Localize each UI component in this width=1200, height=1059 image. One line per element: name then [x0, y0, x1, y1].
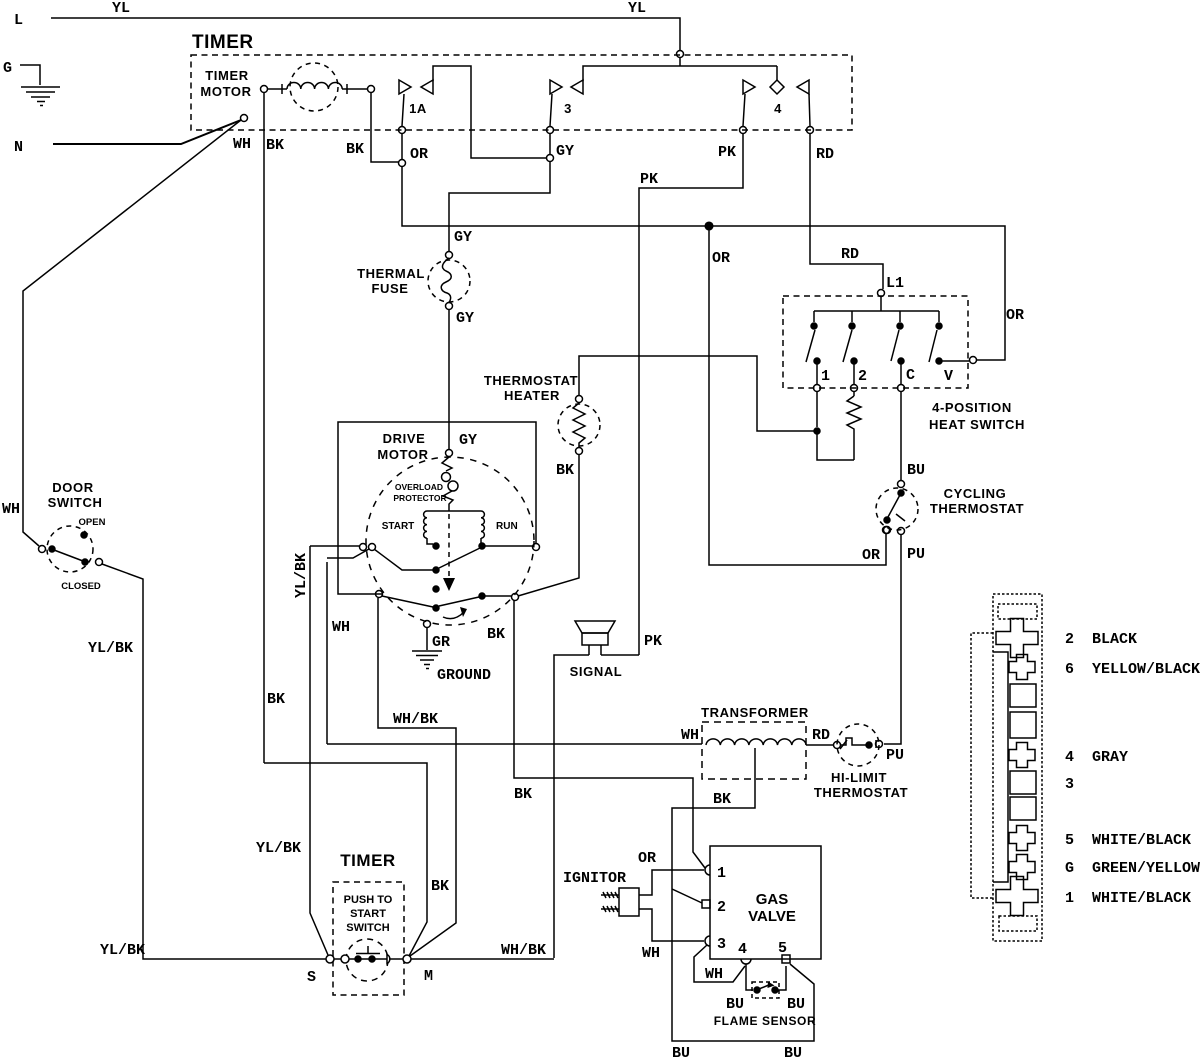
- svg-text:WH: WH: [681, 727, 699, 744]
- terminal square 3: [1010, 771, 1036, 794]
- svg-text:YL/BK: YL/BK: [256, 840, 301, 857]
- svg-text:HI-LIMIT: HI-LIMIT: [831, 770, 887, 785]
- svg-text:BK: BK: [514, 786, 532, 803]
- svg-text:1: 1: [717, 865, 726, 882]
- svg-text:IGNITOR: IGNITOR: [563, 870, 626, 887]
- wire BK timer to push-to-start M: [264, 763, 449, 956]
- svg-text:BLACK: BLACK: [1092, 631, 1137, 648]
- motor winding bottom leads: [427, 538, 532, 549]
- svg-text:CYCLING: CYCLING: [944, 486, 1007, 501]
- svg-text:BK: BK: [431, 878, 449, 895]
- wire RD timer to heat switch L1: [810, 134, 883, 289]
- wire OR ignitor to gas valve 1: [638, 850, 704, 895]
- label DRIVE MOTOR: [377, 431, 428, 462]
- label THERMOSTAT HEATER: [484, 373, 578, 403]
- drive motor circle: [366, 457, 534, 625]
- wire BU heat switch C to cycling thermostat: [898, 364, 926, 480]
- wire WH ignitor to gas valve 3: [639, 909, 704, 962]
- wire YL/BK door switch to push-to-start S: [88, 564, 326, 959]
- node M: [424, 968, 433, 985]
- svg-text:WH: WH: [2, 501, 20, 518]
- label 4-POSITION HEAT SWITCH: [929, 400, 1025, 432]
- wire signal right to PK: [601, 654, 639, 656]
- svg-text:4: 4: [1065, 749, 1074, 766]
- timer cam contact 4: [743, 66, 810, 126]
- ground symbol at G: [20, 65, 60, 106]
- wire WH from timer to door switch: [2, 120, 241, 546]
- signal buzzer: [575, 621, 615, 655]
- junction OR branch: [705, 222, 713, 230]
- motor GY terminal: [446, 450, 453, 457]
- timer terminal OR: [399, 127, 429, 164]
- svg-text:DOOR: DOOR: [52, 480, 93, 495]
- label SIGNAL: [570, 664, 623, 679]
- label OPEN: [79, 517, 106, 528]
- svg-text:WHITE/BLACK: WHITE/BLACK: [1092, 832, 1191, 849]
- timer terminal RD: [807, 127, 835, 164]
- svg-text:4: 4: [774, 101, 782, 116]
- svg-text:WH: WH: [642, 945, 660, 962]
- svg-text:V: V: [944, 368, 953, 385]
- gas valve pin 3: [705, 936, 726, 953]
- junction heat switch 1: [814, 428, 854, 460]
- ignitor: [563, 870, 639, 916]
- hi-limit thermostat S4: [834, 724, 905, 766]
- terminal cross 6: [1009, 655, 1035, 680]
- motor ground terminal GR: [424, 621, 451, 652]
- svg-text:1: 1: [821, 368, 830, 385]
- svg-text:FLAME SENSOR: FLAME SENSOR: [714, 1014, 817, 1028]
- svg-text:TIMER: TIMER: [192, 32, 254, 53]
- svg-text:G: G: [1065, 860, 1074, 877]
- push-to-start switch contacts: [326, 939, 411, 981]
- terminal square a: [1010, 684, 1036, 707]
- drive motor box: [338, 422, 540, 598]
- wire transformer to hi-limit RD: [806, 727, 833, 745]
- door switch S3: [39, 526, 103, 572]
- svg-text:WH: WH: [233, 136, 251, 153]
- motor run winding: [481, 511, 518, 538]
- svg-text:OR: OR: [638, 850, 656, 867]
- svg-text:HEATER: HEATER: [504, 388, 560, 403]
- svg-text:THERMOSTAT: THERMOSTAT: [484, 373, 578, 388]
- heat switch terminal 1 bottom: [814, 364, 821, 427]
- label CYCLING THERMOSTAT: [930, 486, 1024, 516]
- legend 1 WHITE/BLACK: [1065, 890, 1191, 907]
- svg-text:SWITCH: SWITCH: [346, 922, 389, 934]
- label GAS VALVE: [748, 891, 796, 925]
- svg-text:YL: YL: [112, 0, 130, 17]
- svg-text:BK: BK: [346, 141, 364, 158]
- svg-text:BU: BU: [907, 462, 925, 479]
- heat switch arm V: [929, 330, 953, 385]
- push-to-start switch dashed box: [333, 882, 404, 995]
- wire WH/BK push-to-start M to signal: [411, 942, 554, 959]
- svg-text:RD: RD: [812, 727, 830, 744]
- svg-text:N: N: [14, 139, 23, 156]
- heat switch contacts: [811, 323, 942, 364]
- wire WH to transformer: [327, 727, 702, 744]
- timer terminal PK: [718, 127, 747, 162]
- motor start winding: [382, 511, 481, 538]
- svg-text:BU: BU: [672, 1045, 690, 1059]
- svg-text:WH/BK: WH/BK: [393, 711, 438, 728]
- svg-text:MOTOR: MOTOR: [200, 84, 251, 99]
- svg-text:BK: BK: [487, 626, 505, 643]
- heat switch arm 2: [843, 330, 867, 385]
- terminal block: [971, 594, 1042, 941]
- legend 4 GRAY: [1065, 749, 1128, 766]
- svg-text:BU: BU: [787, 996, 805, 1013]
- svg-text:FUSE: FUSE: [371, 281, 408, 296]
- legend 5 WHITE/BLACK: [1065, 832, 1191, 849]
- motor rotation arrow: [443, 607, 467, 619]
- svg-text:GY: GY: [556, 143, 574, 160]
- wire BK transformer tap to flame sensor loop: [672, 748, 814, 1059]
- svg-text:BK: BK: [267, 691, 285, 708]
- svg-text:CLOSED: CLOSED: [61, 581, 101, 592]
- overload protector: [442, 457, 459, 511]
- svg-text:GREEN/YELLOW: GREEN/YELLOW: [1092, 860, 1200, 877]
- node G: [3, 60, 12, 77]
- svg-text:OR: OR: [1006, 307, 1024, 324]
- svg-text:2: 2: [1065, 631, 1074, 648]
- svg-text:YL/BK: YL/BK: [88, 640, 133, 657]
- svg-text:PUSH TO: PUSH TO: [344, 894, 393, 906]
- svg-text:3: 3: [717, 936, 726, 953]
- svg-text:PK: PK: [644, 633, 662, 650]
- svg-text:MOTOR: MOTOR: [377, 447, 428, 462]
- terminal cross G: [1009, 855, 1035, 880]
- svg-text:S: S: [307, 969, 316, 986]
- svg-text:GRAY: GRAY: [1092, 749, 1128, 766]
- svg-text:BK: BK: [266, 137, 284, 154]
- svg-text:4-POSITION: 4-POSITION: [932, 400, 1012, 415]
- terminal square b: [1010, 712, 1036, 738]
- svg-text:GY: GY: [454, 229, 472, 246]
- wire BK motor to gas valve 1: [487, 600, 705, 868]
- label TIMER (push to start): [340, 851, 395, 870]
- wire BK thermostat heater to drive motor: [518, 455, 579, 596]
- wire BK timer motor right to OR node: [346, 93, 406, 167]
- wire WH to motor: [327, 549, 369, 744]
- node S: [307, 969, 316, 986]
- svg-text:L: L: [14, 12, 23, 29]
- timer cam contact 3: [550, 66, 777, 126]
- svg-text:OR: OR: [410, 146, 428, 163]
- gas valve box: [710, 846, 821, 959]
- svg-text:THERMOSTAT: THERMOSTAT: [930, 501, 1024, 516]
- label PUSH TO START SWITCH: [344, 894, 393, 934]
- svg-text:TRANSFORMER: TRANSFORMER: [701, 705, 809, 720]
- label HI-LIMIT THERMOSTAT: [814, 770, 908, 800]
- svg-text:PROTECTOR: PROTECTOR: [393, 493, 446, 503]
- svg-text:5: 5: [778, 940, 787, 957]
- node N: [14, 139, 23, 156]
- label TIMER MOTOR: [200, 68, 251, 99]
- wire WH gas valve 3 to 4: [694, 945, 745, 983]
- wire N to timer WH terminal: [53, 120, 241, 144]
- label TIMER: [192, 32, 254, 53]
- ground symbol at motor: [412, 651, 491, 684]
- legend 3: [1065, 776, 1074, 793]
- heat switch arm C: [891, 330, 915, 384]
- wire OR to cycling thermostat: [709, 230, 890, 565]
- label OVERLOAD PROTECTOR: [393, 482, 446, 503]
- heat switch arm 1: [806, 330, 830, 385]
- terminal cross 1: [996, 877, 1038, 916]
- svg-text:3: 3: [1065, 776, 1074, 793]
- timer dashed box: [191, 55, 852, 130]
- terminal cross 5: [1009, 826, 1035, 851]
- svg-text:C: C: [906, 367, 915, 384]
- svg-text:TIMER: TIMER: [340, 851, 395, 870]
- wire BU long vertical to gas valve 2: [672, 889, 702, 903]
- svg-text:L1: L1: [886, 275, 904, 292]
- svg-text:YELLOW/BLACK: YELLOW/BLACK: [1092, 661, 1200, 678]
- label THERMAL FUSE: [357, 266, 425, 296]
- wire V to OR: [942, 360, 969, 362]
- legend 2 BLACK: [1065, 631, 1137, 648]
- svg-text:HEAT SWITCH: HEAT SWITCH: [929, 417, 1025, 432]
- wire BK timer motor left down: [264, 93, 285, 763]
- svg-text:1: 1: [1065, 890, 1074, 907]
- terminal cross 2: [996, 619, 1038, 658]
- svg-text:PU: PU: [907, 546, 925, 563]
- transformer T1: [702, 722, 806, 779]
- svg-text:WH: WH: [705, 966, 723, 983]
- svg-text:DRIVE: DRIVE: [383, 431, 426, 446]
- svg-text:GROUND: GROUND: [437, 667, 491, 684]
- node L: [14, 12, 23, 29]
- svg-text:VALVE: VALVE: [748, 908, 796, 925]
- wire YL from L to timer: [51, 0, 684, 66]
- label TRANSFORMER: [701, 705, 809, 720]
- 4-position heat switch U1: [783, 296, 968, 388]
- timer WH terminal: [233, 115, 251, 154]
- wire PU cycling thermostat to hi-limit: [884, 535, 925, 744]
- svg-text:OPEN: OPEN: [79, 517, 106, 528]
- flame sensor: [726, 964, 805, 1013]
- svg-text:GY: GY: [456, 310, 474, 327]
- svg-text:GAS: GAS: [756, 891, 789, 908]
- timer cam contact 1A: [399, 66, 546, 158]
- svg-text:YL/BK: YL/BK: [293, 553, 310, 598]
- terminal cross 4: [1009, 743, 1035, 768]
- svg-text:2: 2: [717, 899, 726, 916]
- svg-text:2: 2: [858, 368, 867, 385]
- svg-text:WHITE/BLACK: WHITE/BLACK: [1092, 890, 1191, 907]
- svg-text:BK: BK: [556, 462, 574, 479]
- svg-text:4: 4: [738, 941, 747, 958]
- motor centrifugal switch lower: [382, 586, 519, 611]
- terminal block plate: [993, 652, 1008, 882]
- svg-text:3: 3: [564, 101, 572, 116]
- timer terminal GY: [547, 127, 575, 162]
- gas valve pin 1: [705, 865, 726, 882]
- svg-text:BU: BU: [726, 996, 744, 1013]
- wire thermostat heater to heat switch 1: [579, 356, 814, 431]
- node L1: [878, 275, 905, 297]
- legend 6 YELLOW/BLACK: [1065, 661, 1200, 678]
- svg-text:G: G: [3, 60, 12, 77]
- svg-text:WH: WH: [332, 619, 350, 636]
- label CLOSED: [61, 581, 101, 592]
- terminal square c: [1010, 797, 1036, 820]
- svg-text:OVERLOAD: OVERLOAD: [395, 482, 443, 492]
- label FLAME SENSOR: [714, 1014, 817, 1028]
- wire GY thermal fuse to drive motor: [449, 310, 477, 449]
- motor centrifugal switch upper: [360, 544, 481, 574]
- svg-text:START: START: [382, 521, 415, 532]
- svg-text:5: 5: [1065, 832, 1074, 849]
- thermal fuse: [428, 252, 470, 310]
- svg-text:WH/BK: WH/BK: [501, 942, 546, 959]
- gas valve pin 2: [702, 899, 726, 916]
- thermostat heater R2: [558, 396, 600, 455]
- svg-text:M: M: [424, 968, 433, 985]
- gas valve pin 5: [778, 940, 790, 963]
- svg-text:YL/BK: YL/BK: [100, 942, 145, 959]
- svg-text:OR: OR: [712, 250, 730, 267]
- timer motor coil: [261, 63, 375, 111]
- svg-text:GR: GR: [432, 634, 450, 651]
- wire WH/BK motor to push-to-start M: [378, 598, 456, 956]
- legend G GREEN/YELLOW: [1065, 860, 1200, 877]
- svg-text:PU: PU: [886, 747, 904, 764]
- svg-text:RD: RD: [816, 146, 834, 163]
- svg-text:BU: BU: [784, 1045, 802, 1059]
- svg-text:TIMER: TIMER: [205, 68, 248, 83]
- svg-text:GY: GY: [459, 432, 477, 449]
- svg-text:SWITCH: SWITCH: [48, 495, 103, 510]
- resistor heat switch 2: [847, 364, 861, 460]
- svg-text:START: START: [350, 908, 386, 920]
- svg-text:PK: PK: [640, 171, 658, 188]
- svg-text:SIGNAL: SIGNAL: [570, 664, 623, 679]
- wire PK timer to signal: [639, 134, 743, 655]
- wire signal left to BK junction: [554, 655, 589, 958]
- svg-text:RUN: RUN: [496, 521, 518, 532]
- svg-text:BK: BK: [713, 791, 731, 808]
- svg-text:6: 6: [1065, 661, 1074, 678]
- label DOOR SWITCH: [48, 480, 103, 510]
- motor dashed arrow: [443, 514, 455, 591]
- wire GY timer to thermal fuse: [449, 134, 550, 251]
- svg-text:THERMAL: THERMAL: [357, 266, 425, 281]
- heat switch internal bus: [814, 297, 939, 322]
- svg-text:RD: RD: [841, 246, 859, 263]
- svg-text:YL: YL: [628, 0, 646, 17]
- svg-text:THERMOSTAT: THERMOSTAT: [814, 785, 908, 800]
- wire OR long run to heat switch V: [402, 134, 1024, 364]
- svg-text:OR: OR: [862, 547, 880, 564]
- svg-text:PK: PK: [718, 144, 736, 161]
- gas valve pin 4: [738, 941, 751, 964]
- cycling thermostat S2: [876, 481, 918, 535]
- wire YL/BK to motor: [256, 546, 359, 955]
- svg-text:1A: 1A: [409, 101, 427, 116]
